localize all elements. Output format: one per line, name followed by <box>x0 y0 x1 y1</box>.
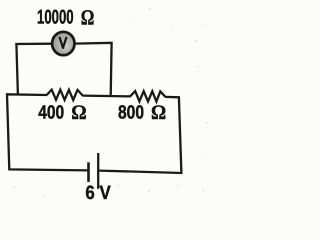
battery 6 V (cell: short negative plate + long positive plate) <box>89 153 99 189</box>
svg-text:Ω: Ω <box>151 102 166 124</box>
wire middle-right segment, right outer side and bottom-right (loop to battery plus) <box>99 97 181 173</box>
voltmeter V (circle with V) <box>52 32 74 55</box>
wire middle-left segment, left outer side and bottom-left (loop to battery minus) <box>7 94 87 170</box>
svg-text:400: 400 <box>38 103 64 124</box>
wire top-right with bend down to node B (voltmeter branch) <box>75 43 111 97</box>
svg-text:Ω: Ω <box>71 102 86 124</box>
svg-text:6 V: 6 V <box>85 183 110 204</box>
value label 800 Ω <box>118 102 166 124</box>
svg-text:800: 800 <box>118 103 144 124</box>
resistor R1 400 Ω (zigzag) <box>47 90 83 100</box>
wire top-left with bend down to node A (voltmeter branch) <box>16 44 51 95</box>
value label 400 Ω <box>38 102 86 124</box>
wire middle-center segment (node B region) <box>82 94 130 97</box>
svg-text:Ω: Ω <box>81 6 95 30</box>
svg-text:10000: 10000 <box>37 7 74 29</box>
value label 10000 Ω (voltmeter resistance) <box>37 6 94 30</box>
resistor R2 800 Ω (zigzag) <box>130 91 165 101</box>
